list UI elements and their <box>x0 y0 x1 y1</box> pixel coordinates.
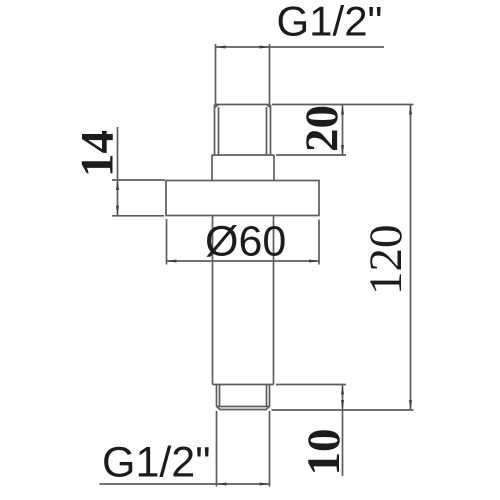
step section <box>212 155 274 181</box>
bottom thread G1/2 10mm <box>217 385 270 410</box>
svg-text:120: 120 <box>360 225 412 296</box>
dimension 120 overall <box>409 105 412 411</box>
dimension Ø60 <box>167 219 320 265</box>
svg-text:G1/2": G1/2" <box>277 0 383 45</box>
svg-text:10: 10 <box>298 429 350 476</box>
dimension 20 thread length <box>272 105 414 156</box>
svg-text:G1/2": G1/2" <box>102 439 211 487</box>
pipe top section (G1/2 male thread end) <box>216 44 270 105</box>
dimension 10 bottom thread length <box>272 385 414 477</box>
dimension line G1/2 bottom <box>100 411 270 487</box>
flange Ø60 <box>166 181 319 216</box>
dimension 14 flange thickness <box>112 127 165 216</box>
svg-text:14: 14 <box>72 130 124 177</box>
body tube <box>213 216 274 385</box>
svg-text:20: 20 <box>296 105 348 152</box>
dimension line G1/2 top <box>216 46 385 49</box>
threaded section 20mm <box>215 105 271 156</box>
svg-text:Ø60: Ø60 <box>205 218 286 266</box>
